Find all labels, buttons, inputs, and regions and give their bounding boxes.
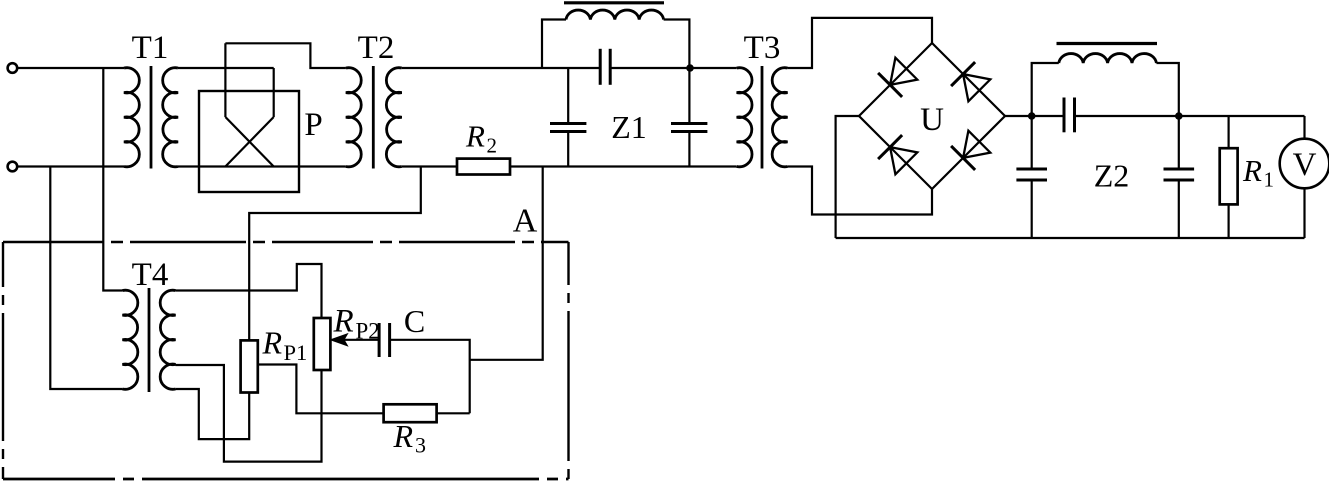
svg-text:P: P [304,107,322,143]
filter Z2 left shunt capacitor bottom lead [1031,180,1033,238]
filter Z2 inductor [1059,54,1157,63]
wire: node on bottom input down to T4 primary bottom [50,167,122,390]
transformer T3 secondary winding [772,68,787,167]
wire: Z2 LC loop right side [1156,63,1178,116]
junction dot Z1 output [686,64,694,72]
wire: T3 secondary top to bridge top vertex [788,18,933,68]
resistor R3 [384,404,437,422]
potentiometer RP2 [314,318,331,370]
transformer T2 primary winding [346,68,361,167]
transformer T4 secondary winding [160,290,175,389]
wire: T2 secondary bottom to R2 [402,165,457,167]
bridge diode top-right [963,74,990,101]
svg-text:T2: T2 [358,30,395,66]
filter Z2 series capacitor plate right [1073,98,1076,133]
regulator P box [199,91,299,192]
filter Z1 right shunt capacitor top lead [688,68,690,124]
wire: bridge left vertex to output bottom rail [836,116,859,238]
transformer T1 core [150,66,153,169]
filter Z2 inductor core bar [1057,42,1158,45]
filter Z1 left shunt capacitor plates [550,122,586,125]
wire: T1 secondary top to P input [178,67,274,69]
filter Z1 right shunt capacitor bottom lead [688,132,690,167]
svg-text:R: R [333,304,354,340]
svg-text:R: R [393,418,414,454]
potentiometer RP1 [241,340,258,392]
wire: T4 secondary bottom to RP1 bottom [176,389,250,439]
svg-text:A: A [513,203,538,240]
feedback box dashed border bottom [3,478,569,481]
wire: T3 secondary bottom to bridge bottom vertex [788,167,933,215]
filter Z1 series capacitor plate left [599,49,602,85]
filter Z2 series capacitor plate left [1063,98,1066,133]
regulator P right lead (down into box) [273,68,275,117]
filter Z2 left shunt capacitor plates [1016,168,1047,171]
svg-text:2: 2 [487,134,498,158]
wire: T4 secondary tap to RP2 bottom [176,365,322,462]
rectifier bridge U diamond [859,43,1005,189]
resistor R1 bottom lead [1227,204,1229,238]
wire: R2 to bottom rail under Z1 to T3 primary bottom [510,165,737,167]
transformer T4 core [148,288,151,392]
filter Z1 inductor [566,10,664,19]
wire: output bottom rail [836,237,1305,239]
feedback box dashed border top [3,241,569,243]
resistor R3 right lead [437,412,470,414]
wire: T2 bottom node down and left to RP1 top [249,167,421,341]
svg-text:Z1: Z1 [611,109,647,145]
transformer T2 secondary winding [386,68,401,167]
wire: P output loop over to T2 primary top [225,43,346,68]
wire: bridge right vertex to Z2 input [1005,115,1032,117]
filter Z1 inductor core bar [564,1,664,4]
filter Z1 left shunt capacitor bottom lead [567,132,569,167]
capacitor C plate right [388,323,391,357]
wire: voltmeter bottom lead [1303,188,1305,238]
filter Z2 left shunt capacitor top lead [1031,116,1033,169]
bridge diode top-left [890,58,917,85]
wire: Z2 rail left segment [1032,115,1064,117]
filter Z1 right shunt capacitor plates [671,122,707,125]
junction dot Z2 output [1175,112,1183,120]
svg-text:V: V [1293,147,1317,183]
wire: Z1 LC loop right side [664,20,690,69]
input terminal bottom [8,162,18,172]
wire: Z1 LC loop left side [542,20,566,69]
svg-text:C: C [404,303,425,339]
capacitor C plate left [378,323,381,357]
wire: RP1 tap to R3 left lead [258,365,384,414]
wire: T2 secondary top rail to Z1 series capacitor [402,67,601,69]
svg-text:U: U [920,102,944,138]
junction dot Z2 input [1028,112,1036,120]
svg-text:T4: T4 [132,257,169,293]
svg-text:T1: T1 [132,30,169,66]
filter Z2 right shunt capacitor bottom lead [1178,180,1180,238]
potentiometer RP2 wiper arrow [344,339,379,341]
transformer T1 primary winding [124,68,139,167]
wire: node A from bottom rail down into feedback box [470,167,543,360]
wire: Z2 LC loop left side [1032,63,1059,116]
svg-text:3: 3 [415,433,426,458]
filter Z1 series capacitor plate right [609,49,612,85]
svg-text:Z2: Z2 [1094,158,1130,194]
resistor R1 top lead [1227,116,1229,148]
wire: Z2 rail right segment [1075,115,1305,117]
feedback box dashed border left [2,242,4,479]
filter Z2 right shunt capacitor top lead [1178,116,1180,169]
voltmeter V circle [1280,139,1329,189]
regulator P cross leg 1 [225,117,273,167]
transformer T4 primary winding [123,290,138,389]
wire: voltmeter top lead [1303,116,1305,139]
regulator P cross leg 2 [225,117,273,167]
transformer T2 core [372,66,375,169]
wire: capacitor C to feedback node [390,340,470,414]
svg-text:R: R [465,119,485,154]
svg-text:1: 1 [1264,168,1275,192]
svg-text:R: R [262,325,283,361]
wire: T4 secondary top to RP2 top [176,264,322,318]
svg-text:R: R [1242,153,1262,188]
resistor R2 [457,159,510,175]
regulator P left lead (up out of box) [224,43,226,117]
svg-text:T3: T3 [744,30,781,66]
filter Z1 left shunt capacitor top lead [567,68,569,124]
bridge diode bottom-left [890,147,917,174]
wire: bottom terminal to T1 primary bottom [17,165,124,167]
transformer T3 core [761,66,764,169]
wire: top terminal to T1 primary top [17,67,124,69]
wire: T1 secondary bottom rail to T2 primary bottom [178,165,346,167]
filter Z2 right shunt capacitor plates [1164,168,1195,171]
transformer T1 secondary winding [163,68,178,167]
feedback box dashed border right [567,242,569,479]
wire: node on top input down to T4 primary top [103,68,122,291]
bridge diode bottom-right [963,131,990,158]
resistor R1 [1220,148,1238,204]
svg-text:P1: P1 [284,340,308,365]
wire: Z1 series capacitor to junction [610,67,737,69]
input terminal top [8,63,18,73]
transformer T3 primary winding [737,68,752,167]
